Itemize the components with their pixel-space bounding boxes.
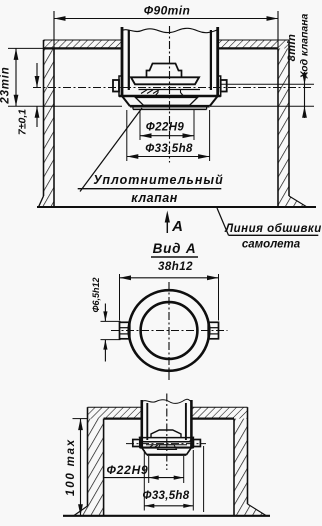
dimension 100 max [73,418,88,420]
dimension Ф33,5h8 [126,110,128,161]
right tab [208,322,218,339]
break (wavy) line at cup top [122,28,218,32]
svg-text:Ф22Н9: Ф22Н9 [106,463,148,477]
dimension 8min (valve stroke) [304,72,306,118]
cup tapered bottom [122,96,130,106]
well ceiling band right (hatched) [191,407,247,418]
flange ring left (bottom view) [140,437,142,447]
valve plate disc (bottom view) [140,438,193,442]
guide pin left [113,80,119,92]
vertical centerline of fitting [169,26,171,163]
valve seat detail [139,89,201,91]
cup tapered bottom (bottom view) [142,448,147,455]
svg-text:Уплотнительный: Уплотнительный [93,173,223,187]
leader line to valve [80,108,142,192]
fitting cup left wall [121,27,124,96]
svg-text:Ф33,5h8: Ф33,5h8 [145,143,193,155]
well left wall (hatched) [88,419,104,516]
dimension Ф6,5h12 [101,320,121,322]
fitting cup right wall (bottom view) [190,400,193,448]
svg-text:Ф33,5h8: Ф33,5h8 [143,490,190,502]
tab clearance line (bottom view) [203,446,205,512]
well ceiling band left (hatched) [88,407,142,418]
dimension Ф33,5h8 (bottom view) [143,450,145,511]
vertical centerline (bottom view) [166,394,168,471]
view A horizontal centerline [111,330,228,332]
aircraft skin line [37,206,316,208]
stroke upper reference line [221,83,314,85]
svg-text:Вид А: Вид А [153,241,197,256]
bottom skin line [63,515,270,517]
flange bottom edge [119,95,221,98]
svg-text:Линия обшивки: Линия обшивки [224,223,322,235]
outer ring circle [129,290,210,371]
guide pin right (bottom view) [193,440,200,447]
svg-text:100 max: 100 max [65,438,77,496]
svg-text:8min: 8min [286,34,298,62]
svg-text:Ф6,5h12: Ф6,5h12 [91,277,101,312]
flange ring right [218,76,221,96]
left recess wall (hatched) [44,48,55,207]
svg-text:Ф90min: Ф90min [144,4,190,18]
svg-text:А: А [171,218,183,235]
valve cap profile (bottom view) [151,430,181,438]
svg-text:Ход клапана: Ход клапана [299,13,311,79]
flange ring right (bottom view) [191,437,193,447]
dimension 23min [8,47,44,49]
dimension Ф22Н9 [139,109,141,140]
valve seat detail (bottom view) [146,444,187,446]
valve cap profile [147,64,182,78]
fitting cup left wall (bottom view) [141,400,144,448]
guide pin left (bottom view) [133,440,140,447]
svg-text:23min: 23min [0,66,12,104]
valve horizontal centerline (bottom view) [126,443,206,445]
right recess wall (hatched) [278,48,289,207]
recess ceiling panel left (hatched) [44,40,122,48]
break (wavy) line at cup top (bottom view) [142,399,192,403]
inner bore circle [141,302,198,359]
dimension 7±0,1 [36,63,38,88]
dimension Ф22Н9 (bottom view) [148,456,150,483]
left tab [120,322,130,339]
leader line to skin [217,208,229,235]
fitting cup right wall [216,27,219,96]
svg-text:7±0,1: 7±0,1 [17,109,29,135]
guide pin right [221,80,227,92]
svg-text:клапан: клапан [131,191,178,205]
well right wall (hatched) [234,419,248,516]
svg-text:самолета: самолета [242,239,301,251]
flange bottom edge (bottom view) [140,447,194,449]
horizontal centerline [33,87,313,89]
view A vertical centerline [168,282,170,382]
dimension Ф90min overall recess width [53,11,55,55]
bottom reference line [8,105,122,107]
flange ring left [119,76,122,96]
svg-text:38h12: 38h12 [158,261,193,273]
valve plate disc [131,77,199,84]
view arrow А [166,214,168,233]
svg-text:Ф22Н9: Ф22Н9 [146,122,185,134]
recess ceiling panel right (hatched) [218,40,289,48]
